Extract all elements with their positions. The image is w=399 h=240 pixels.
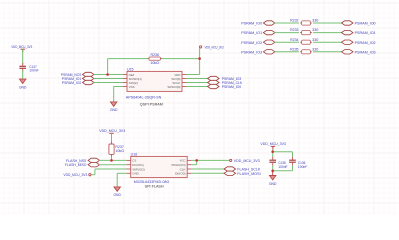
net label FLASH_MISO — [65, 162, 87, 167]
svg-text:330: 330 — [312, 28, 318, 32]
wire PSRAM_IO1 to R233 — [274, 32, 299, 34]
label R236 value — [150, 53, 159, 65]
wire PSRAM_IO2 to R234 — [274, 41, 299, 43]
resistor R235 — [300, 50, 312, 54]
wire /HOLD up to VCC — [196, 160, 198, 164]
wire VDD to bend — [91, 174, 95, 176]
wire VDD to caps node — [272, 149, 274, 151]
wire PSRAM_NCS to U15 — [94, 74, 123, 76]
net label PSRAM_IO2 (left of R234) — [241, 40, 263, 45]
wire C135 to GND node — [272, 166, 274, 171]
svg-text:GND: GND — [19, 85, 27, 89]
net label PSRAM_NCS — [61, 72, 82, 77]
svg-text:R233: R233 — [290, 28, 299, 32]
net label PSRAM_IO0 (right of R232) — [355, 21, 377, 26]
power flag VDD_MCU_3V3 (above R237) — [99, 129, 125, 133]
net flag circle VCC — [230, 159, 232, 161]
svg-text:PSRAM_IO2: PSRAM_IO2 — [241, 40, 263, 45]
label C137 value — [29, 65, 38, 73]
IC U16 MX25L6433F SPI FLASH — [127, 153, 192, 178]
power symbol — [21, 49, 25, 52]
wire U16 to FLASH_MOSI — [191, 172, 224, 174]
net flag FLASH_MOSI — [224, 171, 236, 175]
net label FLASH_MOSI — [237, 171, 260, 176]
net flag PSRAM_IO1 right — [342, 30, 354, 34]
net label PSRAM_IO0 — [222, 84, 242, 89]
wire PSRAM_IO1 to U15 — [94, 78, 123, 80]
power symbol — [271, 146, 275, 149]
wire C135 branch down — [272, 152, 274, 157]
resistor R234 — [300, 40, 312, 44]
wire U16 to FLASH_SCLK — [191, 168, 224, 170]
svg-text:FLASH_MISO: FLASH_MISO — [65, 162, 87, 167]
wire VDD to R237 — [111, 133, 113, 143]
net flag PSRAM_CLK — [208, 80, 220, 84]
svg-text:PSRAM_IO0: PSRAM_IO0 — [355, 21, 377, 26]
svg-text:330: 330 — [312, 38, 318, 42]
label R232 330 — [290, 19, 318, 23]
wire U15 to PSRAM_IO3 — [186, 78, 207, 80]
svg-text:GND: GND — [110, 108, 118, 112]
svg-text:VDD_MCU_3V3: VDD_MCU_3V3 — [99, 129, 125, 133]
net label PSRAM_IO3 — [222, 76, 242, 81]
net label PSRAM_IO3 (left of R235) — [241, 49, 263, 54]
junction VDD/R236 — [198, 57, 201, 60]
label R235 330 — [290, 47, 318, 51]
resistor R232 — [300, 21, 312, 25]
wire PSRAM_IO0 to R232 — [274, 22, 299, 24]
wire U15 VDD pin — [186, 74, 199, 76]
net flag FLASH_SCLK — [224, 167, 236, 171]
svg-text:SPI FLASH: SPI FLASH — [145, 183, 164, 188]
junction R237/NSS — [110, 159, 113, 162]
wire C137 to GND — [22, 70, 24, 79]
svg-text:100nF: 100nF — [29, 69, 38, 73]
wire VSS — [114, 86, 123, 88]
power flag VDD_MCU_3V3 (mid) — [200, 45, 224, 49]
label MX25L6433FM2I-08G — [134, 180, 170, 184]
label R233 330 — [290, 28, 318, 32]
svg-text:R236: R236 — [151, 53, 160, 57]
net flag PSRAM_IO1 — [83, 76, 95, 80]
resistor R237 — [109, 142, 114, 157]
svg-text:VDD_MCU_3V3: VDD_MCU_3V3 — [63, 173, 87, 177]
net flag PSRAM_IO2 left — [263, 40, 275, 44]
capacitor C135 — [269, 157, 276, 166]
svg-text:PSRAM_IO2: PSRAM_IO2 — [62, 80, 82, 85]
net label FLASH_SCLK — [237, 167, 260, 172]
svg-text:R232: R232 — [290, 19, 299, 23]
net flag PSRAM_IO0 right — [342, 21, 354, 25]
svg-text:100nF: 100nF — [278, 165, 287, 169]
IC U15 APS6404L QSPI PSRAM — [123, 68, 187, 92]
svg-text:VDD_MCU_3V3: VDD_MCU_3V3 — [234, 159, 260, 163]
wire to C136 branch — [273, 151, 293, 153]
svg-text:PSRAM_IO3: PSRAM_IO3 — [241, 49, 263, 54]
net flag PSRAM_IO1 left — [263, 30, 275, 34]
wire FLASH_MISO to U16 — [99, 164, 127, 166]
wire R237 to NSS — [111, 157, 113, 161]
label C136 value — [298, 161, 307, 169]
net label PSRAM_IO2 (right of R234) — [355, 40, 377, 45]
net flag PSRAM_IO2 — [83, 80, 95, 84]
capacitor C136 — [289, 157, 296, 166]
junction caps top — [271, 150, 274, 153]
net flag PSRAM_IO2 right — [342, 40, 354, 44]
svg-text:PSRAM_IO0: PSRAM_IO0 — [241, 21, 263, 26]
wire R233 to PSRAM_IO1 — [313, 32, 341, 34]
svg-text:APS6404L-3SQR-SN: APS6404L-3SQR-SN — [126, 95, 162, 99]
svg-text:R234: R234 — [290, 38, 299, 42]
ground (C137) — [19, 79, 27, 89]
net flag PSRAM_IO3 — [208, 76, 220, 80]
wire VDD down to U15 VDD — [199, 48, 201, 75]
svg-text:PSRAM_IO1: PSRAM_IO1 — [241, 30, 263, 35]
label R237 10k — [115, 145, 124, 153]
wire GND pin — [117, 172, 126, 174]
net label PSRAM_IO2 — [62, 80, 82, 85]
svg-text:VDD_MCU_3V3: VDD_MCU_3V3 — [11, 45, 32, 49]
svg-text:U16: U16 — [131, 153, 138, 157]
net flag circle VDD /WP — [89, 174, 91, 176]
resistor R233 — [300, 31, 312, 35]
svg-text:PSRAM_IO1: PSRAM_IO1 — [355, 30, 377, 35]
junction node NCS — [106, 73, 109, 76]
wire R232 to PSRAM_IO0 — [313, 22, 341, 24]
label SPI FLASH — [145, 183, 164, 188]
wire to R236 — [108, 58, 148, 60]
label C135 value — [278, 161, 287, 169]
power symbol — [109, 133, 113, 136]
svg-text:100nF: 100nF — [298, 165, 307, 169]
svg-text:DI(IO0): DI(IO0) — [175, 172, 186, 176]
resistor R236 — [148, 57, 162, 60]
wire VSS down — [113, 87, 115, 102]
wire to /WP pin — [95, 168, 127, 170]
wire bend up — [94, 169, 96, 175]
svg-text:GND: GND — [132, 172, 139, 176]
label R234 330 — [290, 38, 318, 42]
power flag VDD_MCU_3V3 (top-left) — [11, 45, 32, 49]
svg-text:10kΩ: 10kΩ — [150, 61, 159, 65]
net label PSRAM_IO3 (right of R235) — [355, 49, 377, 54]
wire R234 to PSRAM_IO2 — [313, 41, 341, 43]
net flag PSRAM_IO3 left — [263, 50, 275, 54]
ground (U16) — [113, 187, 121, 197]
wire VDD to C137 — [22, 49, 24, 64]
wire U15 to PSRAM_IO0 — [186, 86, 207, 88]
svg-text:VDD_MCU_3V3: VDD_MCU_3V3 — [205, 45, 224, 49]
svg-text:VDD_MCU_3V3: VDD_MCU_3V3 — [260, 142, 286, 146]
net flag circle VDD — [200, 46, 202, 48]
svg-text:330: 330 — [312, 47, 318, 51]
net label PSRAM_IO1 — [62, 76, 82, 81]
svg-text:PSRAM_IO0: PSRAM_IO0 — [222, 84, 242, 89]
svg-text:SI/SIO[0]: SI/SIO[0] — [167, 85, 180, 89]
wire R236 to NCS node — [107, 59, 109, 75]
wire GND down — [116, 173, 118, 187]
wire PSRAM_IO3 to R235 — [274, 51, 299, 53]
junction VCC/HOLD — [195, 159, 198, 162]
wire VCC — [191, 159, 229, 161]
label APS6404L-3SQR-SN — [126, 95, 162, 99]
label QSPI PSRAM — [140, 102, 163, 107]
ground (caps) — [269, 176, 277, 186]
svg-text:VSS: VSS — [129, 85, 135, 89]
wire FLASH_NSS to U16 — [99, 159, 127, 161]
net flag PSRAM_IO0 — [208, 84, 220, 88]
svg-text:10kΩ: 10kΩ — [115, 149, 124, 153]
net flag FLASH_MISO — [88, 163, 100, 167]
capacitor C137 — [19, 63, 26, 72]
junction caps bottom — [271, 170, 274, 173]
net label FLASH_NSS — [66, 158, 87, 163]
svg-text:PSRAM_IO3: PSRAM_IO3 — [355, 49, 377, 54]
wire /HOLD — [191, 164, 196, 166]
svg-text:GND: GND — [269, 182, 277, 186]
svg-text:330: 330 — [312, 19, 318, 23]
wire R236 to VDD branch — [162, 58, 200, 60]
wire PSRAM_IO2 to U15 — [94, 82, 123, 84]
net label PSRAM_IO1 (right of R233) — [355, 30, 377, 35]
wire C136 down — [292, 166, 294, 171]
wire C136 to GND node — [273, 170, 293, 172]
power flag VDD_MCU_3V3 (U16 VCC) — [230, 159, 260, 163]
svg-text:QSPI PSRAM: QSPI PSRAM — [140, 102, 163, 107]
net flag PSRAM_IO0 left — [263, 21, 275, 25]
wire GND stub — [272, 171, 274, 176]
net flag PSRAM_NCS — [83, 72, 95, 76]
svg-text:FLASH_MOSI: FLASH_MOSI — [237, 171, 260, 176]
wire U15 to PSRAM_CLK — [186, 82, 207, 84]
net label PSRAM_IO1 (left of R233) — [241, 30, 263, 35]
ground (U15 VSS) — [110, 102, 118, 112]
svg-text:PSRAM_IO2: PSRAM_IO2 — [355, 40, 377, 45]
svg-text:R235: R235 — [290, 47, 299, 51]
wire C136 branch down — [292, 152, 294, 157]
power flag VDD_MCU_3V3 (caps) — [260, 142, 286, 146]
power flag VDD_MCU_3V3 (to /WP) — [63, 173, 91, 177]
svg-text:U15: U15 — [127, 68, 134, 72]
svg-text:GND: GND — [113, 193, 121, 197]
net flag PSRAM_IO3 right — [342, 50, 354, 54]
net label PSRAM_IO0 (left of R232) — [241, 21, 263, 26]
wire R235 to PSRAM_IO3 — [313, 51, 341, 53]
net label PSRAM_CLK — [222, 80, 243, 85]
net flag FLASH_NSS — [88, 158, 100, 162]
